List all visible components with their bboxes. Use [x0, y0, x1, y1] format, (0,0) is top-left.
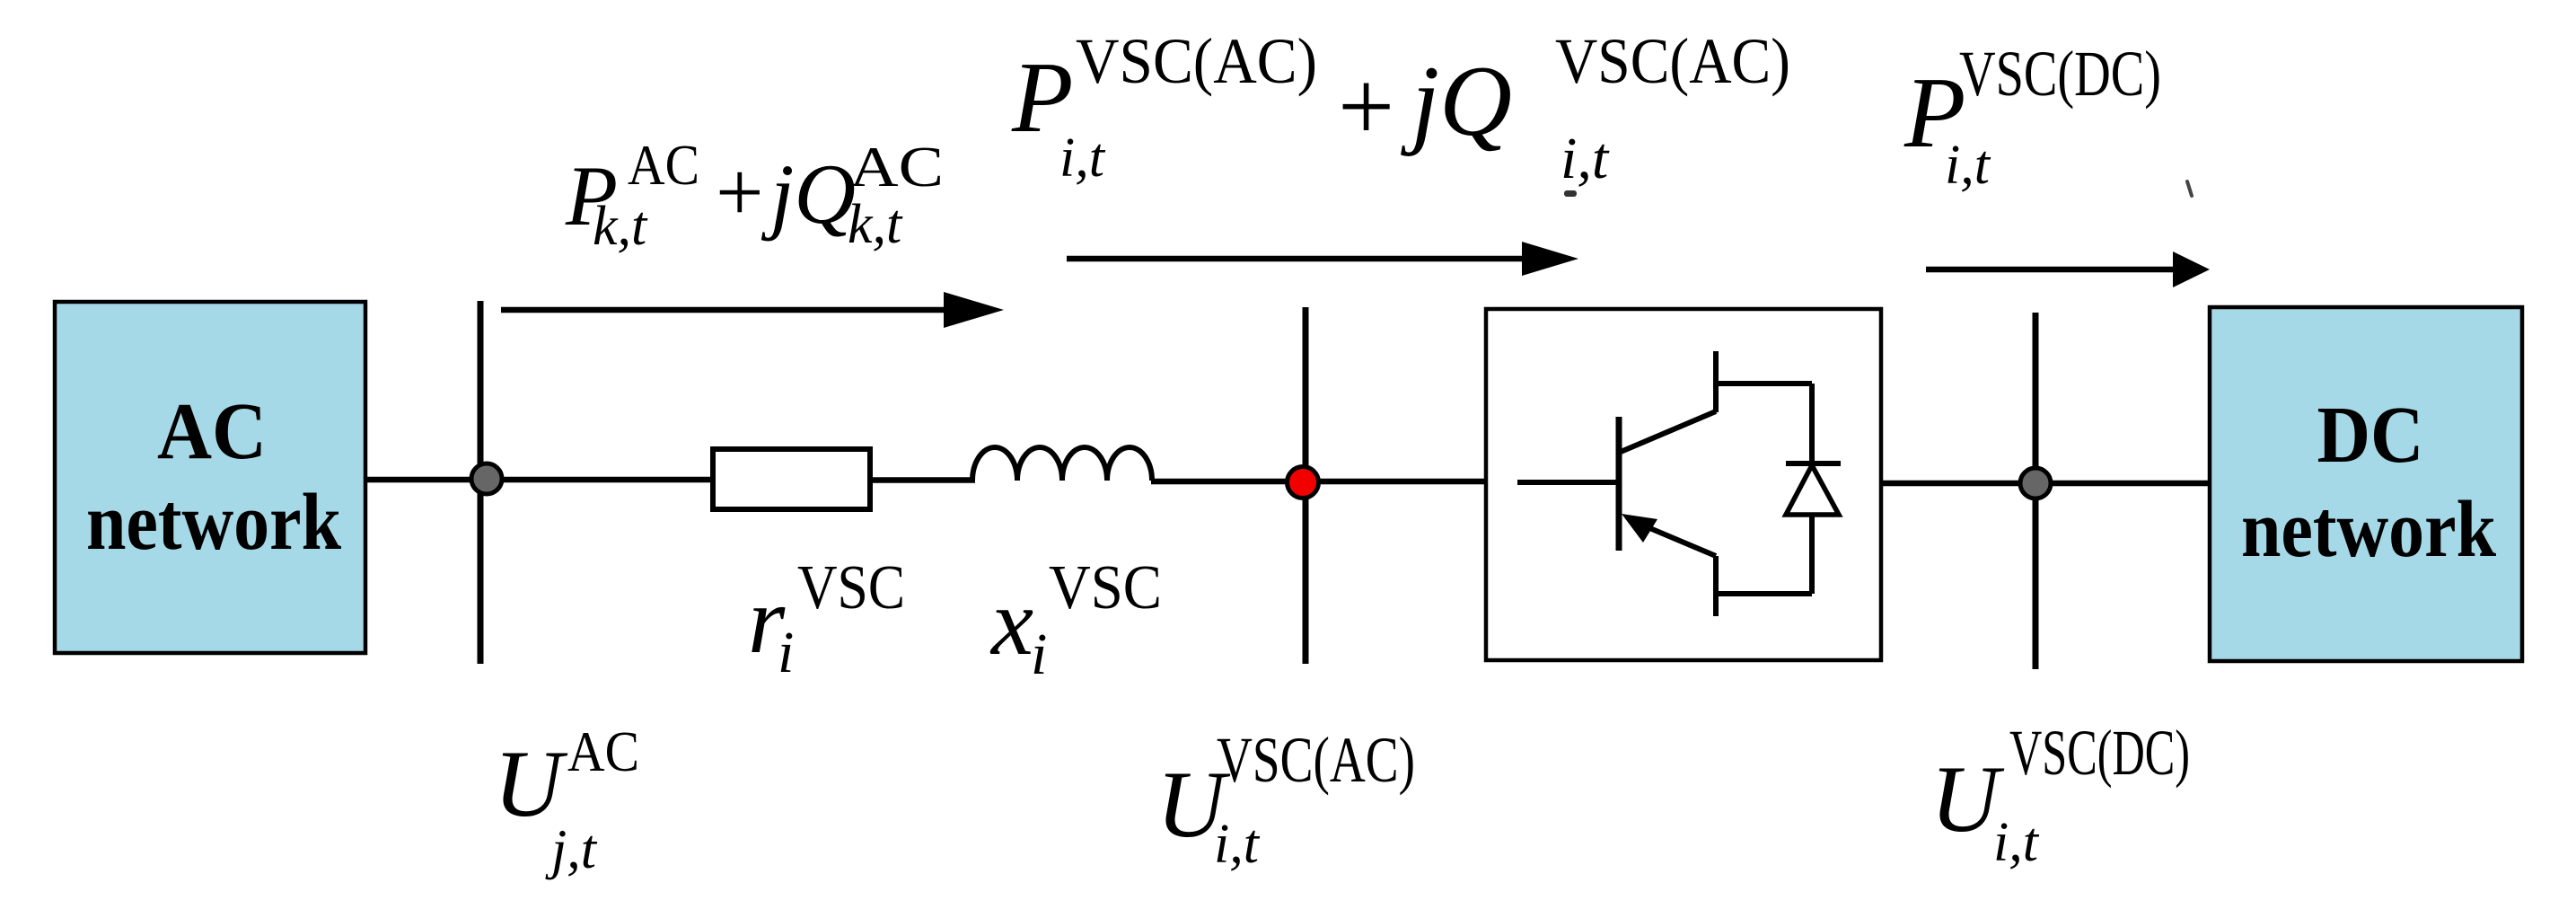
- svg-text:+: +: [1338, 51, 1394, 163]
- svg-text:VSC(AC): VSC(AC): [1555, 25, 1790, 97]
- svg-text:VSC: VSC: [1049, 553, 1162, 622]
- IGBT Q1 collector lead: [1713, 351, 1719, 412]
- DC network label: [2241, 391, 2496, 574]
- IGBT Q1 gate lead: [1517, 480, 1619, 485]
- svg-text:k,t: k,t: [848, 194, 903, 255]
- bus j (AC side bus bar): [478, 301, 484, 664]
- IGBT Q1 emitter lead: [1713, 556, 1719, 616]
- svg-text:jQ: jQ: [1401, 46, 1512, 157]
- IGBT Q1 emitter diagonal: [1641, 525, 1716, 556]
- label U_i,t^VSC(AC): [1156, 724, 1415, 875]
- label x_i^VSC: [989, 553, 1162, 687]
- label P_i,t^VSC(AC) + jQ_i,t^VSC(AC): [1011, 25, 1790, 191]
- label P_k,t^AC + jQ_k,t^AC: [565, 133, 944, 257]
- arrow: P_k AC power flow: [501, 307, 950, 313]
- svg-text:i,t: i,t: [1993, 812, 2040, 873]
- svg-text:VSC(AC): VSC(AC): [1076, 25, 1317, 97]
- label U_j,t^AC: [494, 719, 639, 880]
- AC network box: [55, 302, 365, 653]
- svg-text:AC: AC: [567, 719, 639, 783]
- bus i (VSC AC-side bus bar): [1303, 307, 1309, 664]
- IGBT Q1 gate bar: [1616, 417, 1622, 551]
- DC network box: [2210, 307, 2522, 661]
- label U_i,t^VSC(DC): [1930, 717, 2190, 873]
- svg-text:AC: AC: [628, 133, 699, 197]
- svg-text:j,t: j,t: [545, 819, 598, 880]
- node i (red junction): [1288, 467, 1319, 499]
- svg-text:i,t: i,t: [1561, 126, 1610, 191]
- svg-text:VSC(AC): VSC(AC): [1217, 724, 1415, 796]
- arrow: P_i VSC(AC) power flow: [1067, 256, 1526, 262]
- wire: emitter to diode anode: [1713, 591, 1812, 596]
- svg-text:i,t: i,t: [1214, 814, 1261, 875]
- svg-text:i,t: i,t: [1945, 135, 1991, 196]
- svg-text:VSC(DC): VSC(DC): [2009, 717, 2190, 789]
- svg-text:AC: AC: [849, 135, 944, 199]
- wire: collector to diode cathode: [1713, 381, 1812, 386]
- svg-text:DC: DC: [2317, 391, 2424, 480]
- wire: inductor to node i: [1151, 479, 1486, 485]
- wire: bus j to resistor: [480, 477, 713, 483]
- wire: VSC box to DC bus: [1881, 481, 2210, 487]
- node j (gray junction): [471, 463, 502, 494]
- artifact tick mark: [2187, 181, 2192, 196]
- diode D1 lead: [1809, 384, 1815, 594]
- label P_i,t^VSC(DC): [1903, 38, 2161, 196]
- svg-text:VSC: VSC: [797, 553, 905, 622]
- AC network label: [86, 387, 341, 567]
- arrow: P_i VSC(DC) power flow: [1926, 267, 2177, 273]
- bus DC (DC side bus bar): [2033, 313, 2039, 669]
- IGBT Q1 collector diagonal: [1621, 411, 1716, 452]
- diode D1 cathode bar: [1786, 461, 1841, 466]
- svg-text:i: i: [778, 620, 794, 685]
- inductor x_i^VSC: [972, 447, 1152, 481]
- label r_i^VSC: [748, 553, 905, 685]
- VSC converter box U1: [1486, 309, 1881, 660]
- svg-text:AC: AC: [157, 387, 267, 476]
- svg-text:i: i: [1031, 622, 1047, 687]
- svg-text:+: +: [716, 145, 764, 240]
- wire: AC box to bus j: [367, 477, 503, 483]
- wire: resistor to inductor: [870, 477, 975, 483]
- resistor r_i^VSC: [713, 449, 870, 509]
- svg-text:jQ: jQ: [760, 146, 856, 242]
- artifact dash mark: [1564, 190, 1577, 197]
- svg-text:VSC(DC): VSC(DC): [1959, 38, 2161, 110]
- diode D1 triangle: [1786, 465, 1839, 515]
- node DC (gray junction): [2020, 468, 2051, 499]
- svg-text:k,t: k,t: [593, 196, 648, 257]
- svg-text:network: network: [86, 478, 341, 567]
- IGBT Q1 emitter arrowhead: [1622, 514, 1657, 543]
- svg-text:network: network: [2241, 485, 2496, 574]
- svg-text:x: x: [989, 569, 1033, 675]
- svg-text:i,t: i,t: [1059, 128, 1106, 189]
